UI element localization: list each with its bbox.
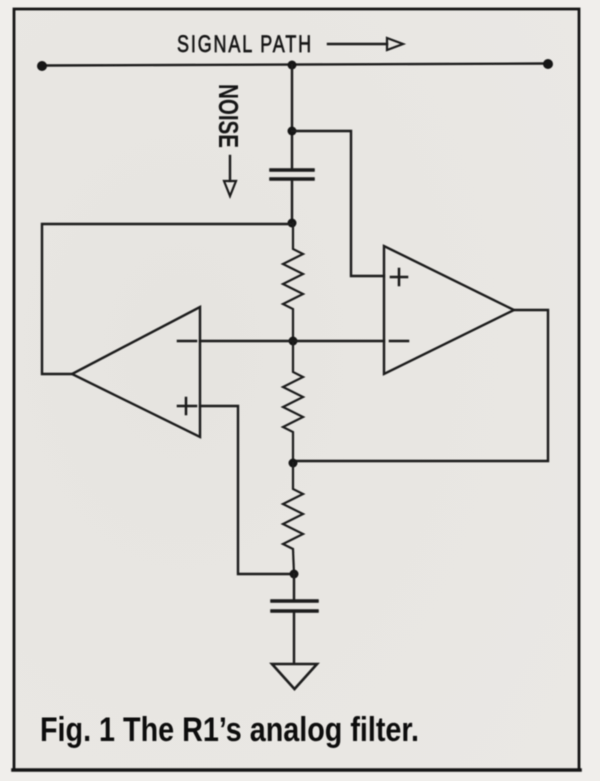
- ground: [272, 664, 317, 689]
- node signal tap junction: [288, 61, 297, 70]
- node A top of resistor chain: [288, 219, 297, 228]
- svg-text:Fig. 1 The R1’s analog filter.: Fig. 1 The R1’s analog filter.: [40, 711, 419, 749]
- op-amp U1 (right, pointing right): [384, 246, 514, 374]
- node right signal endpoint: [543, 59, 553, 69]
- capacitor C1: [271, 170, 313, 179]
- wire node D to capacitor C2: [293, 574, 295, 599]
- wire U1 output to node C: [293, 310, 548, 461]
- arrow signal-path direction: [328, 38, 403, 50]
- arrow noise direction (down): [224, 156, 236, 196]
- wire feedback from U2 output to node A: [42, 224, 292, 374]
- resistor R1: [283, 223, 303, 341]
- wire signal path horizontal: [42, 64, 548, 66]
- wire inverting inputs bus: [200, 340, 384, 342]
- capacitor C2: [272, 601, 317, 611]
- node C: [289, 459, 298, 468]
- node junction to U1 + input: [288, 127, 297, 136]
- resistor R3: [283, 463, 303, 574]
- node D: [290, 570, 299, 579]
- wire C2 to ground: [293, 612, 295, 663]
- node left signal endpoint: [37, 61, 47, 71]
- wire C1 to node A: [291, 180, 293, 224]
- node B middle junction: [289, 337, 298, 346]
- wire vertical from signal path to capacitor C1: [291, 65, 293, 168]
- resistor R2: [283, 341, 303, 463]
- wire U2 plus input to node D: [200, 406, 294, 574]
- svg-text:NOISE: NOISE: [213, 84, 244, 148]
- svg-text:SIGNAL PATH: SIGNAL PATH: [177, 31, 313, 58]
- wire junction to U1 plus input: [292, 131, 384, 276]
- op-amp U2 (left, pointing left): [72, 307, 200, 437]
